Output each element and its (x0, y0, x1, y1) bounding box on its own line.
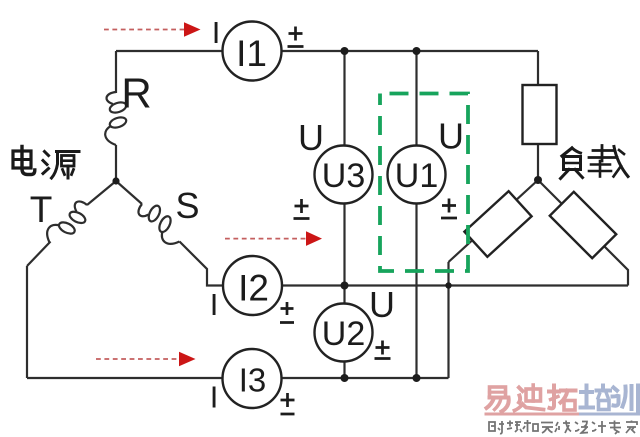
char 负 (562, 148, 572, 156)
node: junction S-line / U3-U2 (341, 282, 349, 290)
load resistor right (550, 192, 616, 258)
ammeter I2 (223, 256, 282, 315)
wire: load top branch (537, 51, 539, 85)
voltmeter U1 (388, 146, 446, 204)
watermark underline (486, 413, 578, 416)
char 训 (614, 388, 618, 391)
char 计 (592, 421, 606, 433)
svg-text:I: I (210, 380, 219, 415)
wire: I2 output S-line (281, 284, 629, 286)
svg-text:U: U (438, 116, 464, 157)
node: junction R-line / U3 (341, 47, 349, 55)
polarity mark U2 (375, 341, 391, 359)
char 家 (626, 421, 637, 434)
current arrow (middle, red dashed) (225, 231, 322, 246)
wire: load triangle right corner (538, 180, 628, 286)
char 频 (507, 421, 522, 433)
svg-text:I: I (212, 15, 221, 50)
wire: star point to T winding (87, 181, 116, 205)
wire: load bottom-left riser (447, 262, 449, 378)
svg-text:U: U (298, 117, 324, 158)
svg-text:I1: I1 (236, 33, 267, 74)
label: 负载 (load, drawn strokes) (561, 146, 629, 179)
char 线 (555, 421, 571, 434)
wire: load resistor to load star point (537, 144, 539, 180)
polarity mark U3 (294, 199, 310, 219)
label: 电源 (power source, drawn strokes) (13, 147, 79, 179)
wire: top R-line right segment (281, 50, 539, 52)
wire: T winding to left corner (27, 242, 51, 267)
char 拓 (549, 390, 559, 394)
watermark: 射频和天线设计专家 (drawn strokes) (489, 420, 637, 434)
char 源 (45, 152, 49, 156)
char 设 (575, 422, 588, 434)
char 射 (489, 421, 504, 434)
load resistor top (R phase) (523, 85, 557, 144)
node: junction R-line / U1 (413, 47, 421, 55)
node: source star point (112, 177, 119, 184)
measurement highlight box around U1 (green dashed) (380, 94, 468, 272)
voltmeter U2 (315, 304, 373, 362)
wire: voltmeter U3 bottom lead (343, 203, 345, 286)
char 和 (523, 420, 538, 432)
wire: left vertical T-line (26, 266, 28, 378)
watermark: 易迪拓培训 (drawn strokes) (486, 385, 639, 414)
svg-text:R: R (121, 70, 151, 117)
wire: bottom T-line to I3 (27, 377, 224, 379)
polarity mark I3 (281, 393, 295, 414)
wire: voltmeter U3 top lead (343, 51, 345, 147)
ammeter I1 (223, 22, 282, 81)
wire: S winding to I2 corner (180, 242, 224, 286)
polarity mark I2 (280, 302, 294, 323)
svg-text:U2: U2 (322, 315, 365, 353)
wire: I3 to load corner (281, 377, 449, 379)
svg-text:I3: I3 (239, 362, 267, 399)
char 迪 (519, 388, 523, 392)
ammeter I3 (223, 349, 282, 408)
wire: voltmeter U2 bottom lead (343, 361, 345, 379)
current arrow (bottom, red dashed) (96, 352, 196, 367)
polarity mark I1 (288, 27, 304, 47)
current arrow (top, red dashed) (104, 22, 201, 37)
wire: left drop to R winding (115, 51, 117, 93)
svg-text:U1: U1 (395, 157, 438, 195)
svg-text:U: U (369, 284, 395, 325)
node: junction T-line / U2 (341, 374, 349, 382)
svg-text:T: T (30, 189, 53, 230)
char 天 (541, 423, 553, 434)
polarity mark U1 (441, 199, 457, 219)
inductor R (source winding) (105, 92, 127, 145)
char 易 (490, 387, 506, 398)
inductor T (source winding) (42, 197, 95, 250)
node: junction S-line / load corner (445, 282, 451, 288)
load resistor left (464, 191, 531, 257)
svg-text:I: I (210, 287, 219, 322)
wire: star point to S winding (116, 181, 142, 204)
node: junction T-line / U1 (413, 374, 421, 382)
svg-text:S: S (175, 185, 199, 226)
wire: top R-line left segment (116, 50, 224, 52)
svg-text:I2: I2 (238, 268, 269, 309)
char 专 (609, 421, 621, 435)
wire: R winding to star point (115, 145, 117, 181)
wire: load triangle left diagonal (449, 180, 539, 262)
char 电 (13, 151, 31, 168)
char 培 (581, 390, 592, 394)
char 载 (593, 149, 613, 152)
node: load star point (534, 176, 542, 184)
inductor S (source winding) (134, 196, 187, 249)
voltmeter U3 (315, 146, 373, 204)
wire: voltmeter U2 top lead (343, 286, 345, 305)
wire: voltmeter U1 bottom lead (415, 203, 417, 379)
wire: voltmeter U1 top lead (415, 51, 417, 147)
svg-text:U3: U3 (322, 157, 365, 195)
